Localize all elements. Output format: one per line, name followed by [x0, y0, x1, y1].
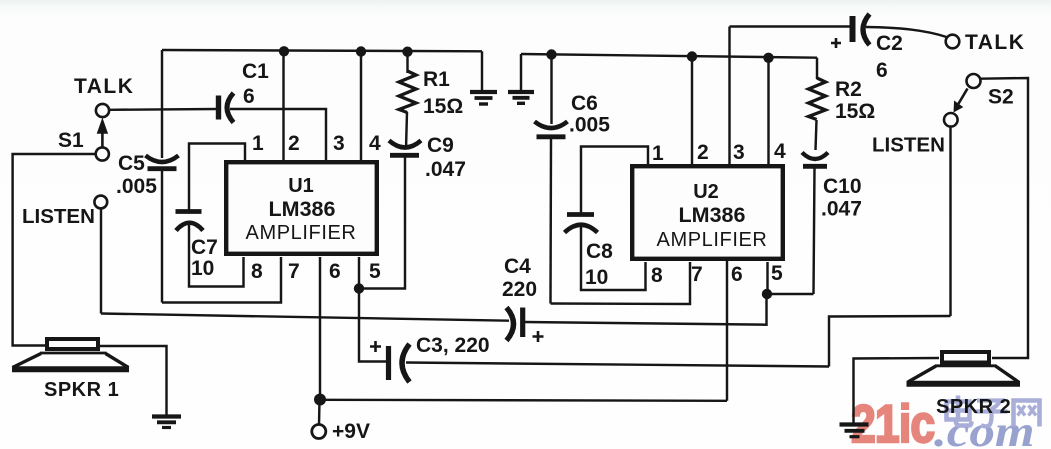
svg-text:.005: .005 — [569, 114, 610, 137]
svg-text:R1: R1 — [423, 68, 450, 91]
wire: pin 5 junction of U2 to C10 — [768, 293, 814, 295]
svg-text:C8: C8 — [586, 240, 613, 263]
node: junction pin5 U1 / C9 / C3 — [354, 283, 364, 293]
svg-text:AMPLIFIER: AMPLIFIER — [246, 222, 357, 244]
op-amp U2 box — [632, 166, 783, 259]
svg-text:7: 7 — [691, 263, 703, 286]
wire: bus right end down to R2 — [816, 58, 818, 79]
ground G1 (top, left bus) — [470, 90, 497, 94]
wire: R1 top lead from bus — [406, 52, 408, 74]
wire: ground bus of U2 (ground / C6 / pin2 / pin4 / R2) — [521, 54, 817, 58]
wire: pin 2 of U1 up to ground bus — [282, 52, 284, 162]
svg-text:+9V: +9V — [332, 420, 370, 443]
wire: R2 bottom lead to C10 — [816, 120, 817, 150]
svg-text:AMPLIFIER: AMPLIFIER — [657, 229, 768, 251]
wire: pin 5 of U1 lead — [358, 257, 360, 289]
capacitor C6 (.005) — [535, 122, 568, 129]
capacitor C5 (.005) — [146, 156, 179, 163]
svg-text:6: 6 — [329, 260, 341, 283]
svg-text:C7: C7 — [191, 236, 218, 259]
svg-text:TALK: TALK — [74, 75, 134, 98]
svg-text:10: 10 — [191, 257, 214, 280]
node: junction pin5 U2 / C10 / C4 — [762, 289, 772, 299]
switch S2 arrow (pole pointing to LISTEN) — [958, 89, 968, 105]
node: junction pin4 U2 on bus — [763, 53, 773, 63]
svg-text:S1: S1 — [58, 129, 84, 152]
svg-text:8: 8 — [251, 260, 263, 283]
wire: pin 2 of U2 up to ground bus — [691, 57, 693, 166]
node: junction pin4 U1 on bus — [356, 46, 366, 56]
svg-text:3: 3 — [733, 141, 745, 164]
svg-text:.047: .047 — [425, 158, 466, 181]
svg-text:C6: C6 — [571, 92, 598, 115]
svg-text:5: 5 — [369, 260, 381, 283]
wire: staircase up from C3 wire — [829, 316, 951, 367]
wire: C6 to pin 7 of U2 — [551, 262, 691, 304]
wire: +9V rail to pin 6 of U2 — [320, 400, 727, 401]
svg-text:15Ω: 15Ω — [835, 100, 875, 123]
node: junction +9V rail — [314, 394, 326, 406]
switch S1 TALK contact — [96, 104, 109, 117]
switch S1 arrow (pole pointing to TALK) — [101, 131, 104, 147]
svg-text:C2: C2 — [876, 32, 903, 55]
wire: TALK contact S1 to C1 — [109, 108, 217, 111]
svg-text:8: 8 — [651, 264, 663, 287]
svg-text:.005: .005 — [116, 175, 157, 198]
svg-text:21ic: 21ic — [851, 395, 934, 449]
svg-text:LISTEN: LISTEN — [22, 205, 95, 228]
svg-text:LM386: LM386 — [269, 197, 336, 221]
wire: S2 common pole to SPKR 2 right terminal — [981, 78, 1029, 358]
svg-text:C9: C9 — [427, 134, 454, 157]
svg-text:3: 3 — [333, 132, 345, 155]
ground G2 (top, right bus) — [508, 90, 534, 94]
svg-text:7: 7 — [288, 260, 300, 283]
wire: pin 3 of U2 up to top wire — [728, 27, 730, 166]
speaker SPKR 2 — [942, 352, 989, 363]
capacitor C1 (6) — [216, 96, 221, 120]
wire: C7 bottom lead to pin 8 of U1 — [189, 222, 244, 287]
svg-text:6: 6 — [876, 59, 888, 82]
svg-text:R2: R2 — [835, 78, 862, 101]
wire: pin 5 junction down to C3 — [359, 289, 387, 362]
svg-text:C5: C5 — [118, 152, 145, 175]
wire: C4 right plate to pin 5 of U2 — [524, 294, 767, 325]
switch S2 LISTEN contact — [944, 113, 958, 127]
wire: C6 top lead from bus — [550, 55, 552, 125]
op-amp U1 box — [226, 162, 377, 254]
svg-text:LISTEN: LISTEN — [872, 134, 945, 157]
svg-text:2: 2 — [697, 141, 709, 164]
svg-text:1: 1 — [652, 142, 664, 165]
wire: top wire from pin 3 to C2 — [730, 25, 851, 27]
ground G3 (SPKR 1) — [152, 414, 181, 418]
capacitor C10 (.047) — [802, 153, 828, 160]
svg-text:4: 4 — [774, 140, 786, 163]
capacitor C3 (220, polarized) — [386, 346, 391, 380]
svg-text:C4: C4 — [504, 255, 531, 278]
svg-text:SPKR 1: SPKR 1 — [44, 379, 119, 401]
wire: pin 6 of U1 down to +9V junction — [319, 257, 321, 398]
wire: S2 LISTEN contact down — [949, 127, 951, 316]
svg-text:2: 2 — [288, 132, 300, 155]
wire: S1 LISTEN contact down — [100, 209, 102, 314]
node: junction R1 top on bus — [402, 47, 412, 57]
watermark 21ic logo — [851, 395, 934, 449]
ground G4 (SPKR 2) — [840, 422, 869, 426]
switch S1 LISTEN contact — [94, 196, 107, 209]
watermark chinese characters (dian zi wang) — [947, 396, 1040, 427]
capacitor C8 (10, pins 1-8) — [567, 212, 594, 217]
svg-text:1: 1 — [252, 132, 264, 155]
svg-text:TALK: TALK — [965, 31, 1025, 54]
terminal +9V — [312, 425, 326, 439]
svg-text:LM386: LM386 — [679, 203, 746, 227]
svg-text:S2: S2 — [988, 86, 1014, 109]
wire: C8 top lead to pin 1 of U2 — [581, 147, 648, 214]
wire: bus left end down to ground G2 — [520, 54, 522, 90]
wire: C6 bottom lead down — [549, 139, 552, 304]
wire: C2 right plate to TALK contact of S2 — [866, 27, 947, 37]
wire: +9V junction to terminal — [318, 401, 321, 425]
wire: C5 to pin 7 of U1 — [162, 257, 281, 303]
node: junction pin2 U1 on bus — [279, 46, 289, 56]
svg-text:6: 6 — [731, 263, 743, 286]
wire: C1 right plate to pin 3 of U1 — [230, 109, 326, 161]
wire: C8 bottom lead to pin 8 of U2 — [581, 225, 646, 290]
wire: pin 6 of U2 lead — [726, 261, 728, 401]
svg-text:C3, 220: C3, 220 — [416, 334, 490, 357]
wire: C10 bottom lead down — [814, 168, 815, 294]
wire: bus right end down to ground G1 — [481, 51, 483, 91]
switch S2 TALK contact — [946, 35, 960, 49]
wire: pin 4 of U2 up to ground bus — [767, 58, 769, 165]
svg-text:6: 6 — [243, 85, 255, 108]
svg-text:5: 5 — [771, 262, 783, 285]
svg-text:10: 10 — [585, 266, 608, 289]
wire: C7 top lead to pin 1 of U1 — [189, 144, 245, 213]
wire: R1 bottom lead to C9 — [406, 112, 407, 149]
switch S1 common pole contact — [96, 147, 109, 160]
wire: C5 top lead from bus — [161, 50, 163, 158]
wire: SPKR 1 right terminal to ground G3 — [99, 346, 167, 415]
wire: ground bus of U1 (C5 top / pin2 / pin4 / R1 / ground) — [162, 50, 482, 51]
svg-text:C1: C1 — [242, 60, 269, 83]
capacitor C9 (.047) — [389, 141, 421, 148]
wire: LISTEN long wire to C4 left plate — [101, 314, 509, 321]
svg-text:15Ω: 15Ω — [423, 95, 463, 118]
resistor R1 (15 ohm) — [399, 71, 416, 113]
resistor R2 (15 ohm) — [809, 78, 826, 120]
svg-text:C10: C10 — [823, 175, 862, 198]
capacitor C2 (6, polarized) — [850, 16, 856, 42]
svg-text:.047: .047 — [821, 198, 862, 221]
wire: C5 bottom lead down — [161, 171, 163, 303]
watermark .com — [934, 408, 1035, 449]
wire: SPKR 2 left terminal to ground G4 — [854, 358, 940, 423]
svg-text:U2: U2 — [693, 181, 719, 203]
svg-text:4: 4 — [369, 132, 381, 155]
wire: S1 common pole to SPKR 1 — [13, 154, 96, 346]
wire: pin 5 of U2 lead — [766, 262, 768, 294]
wire: C9 bottom lead down and left to pin 5 junction — [359, 157, 405, 289]
svg-text:SPKR 2: SPKR 2 — [936, 396, 1011, 418]
svg-text:220: 220 — [502, 278, 537, 301]
wire: pin 4 of U1 up to ground bus — [360, 52, 362, 162]
speaker SPKR 1 — [47, 339, 98, 349]
switch S2 common pole contact — [967, 74, 981, 88]
node: junction pin2 U2 on bus — [687, 51, 697, 61]
capacitor C4 (220, polarized) — [507, 308, 514, 341]
wire: C3 right plate long wire to right — [406, 363, 829, 367]
svg-text:U1: U1 — [288, 175, 314, 197]
capacitor C7 (10, pins 1-8) — [176, 209, 202, 214]
node: junction C6 on right bus — [546, 49, 556, 59]
